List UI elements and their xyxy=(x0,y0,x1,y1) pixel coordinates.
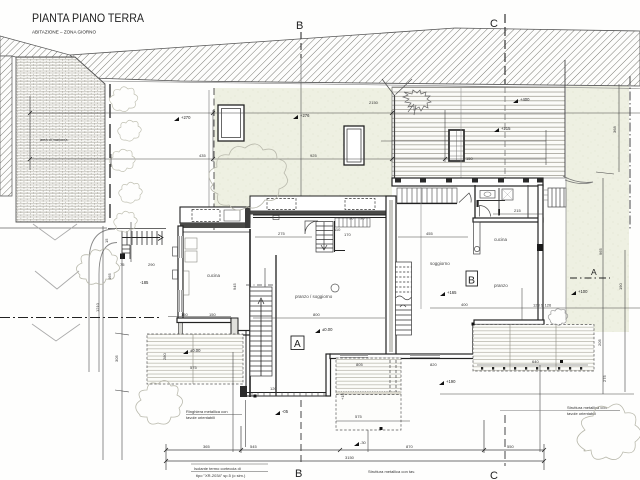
courtyard fence line xyxy=(565,178,567,320)
top wooden deck xyxy=(392,87,565,178)
party wall A/B xyxy=(386,196,396,356)
deck bottom-right xyxy=(473,325,594,372)
garden dim lines xyxy=(30,96,640,170)
svg-text:2150: 2150 xyxy=(369,100,379,105)
UNIT B north wall with posts xyxy=(392,178,543,186)
deck bottom-center upper planked part xyxy=(336,358,401,392)
bottom dim lines xyxy=(166,420,544,470)
paved manoeuvre area (brick) xyxy=(16,57,105,222)
B hall door leaf xyxy=(459,193,471,203)
svg-text:925: 925 xyxy=(310,153,317,158)
deck R dividers and posts xyxy=(509,325,511,371)
road hatch corner top-left xyxy=(0,36,92,78)
A stair S1 xyxy=(250,287,272,376)
hedge curve right garden xyxy=(563,176,593,184)
svg-text:305: 305 xyxy=(114,355,119,362)
svg-text:soggiorno: soggiorno xyxy=(430,261,450,266)
B east wall xyxy=(538,185,543,324)
dimension verticals right xyxy=(596,84,625,394)
svg-text:965: 965 xyxy=(598,248,603,255)
A interior stair S0 xyxy=(316,221,345,252)
svg-text:PIANTA PIANO TERRA: PIANTA PIANO TERRA xyxy=(32,13,144,25)
svg-text:-185: -185 xyxy=(140,280,149,285)
level flags garden xyxy=(181,113,511,131)
svg-text:640: 640 xyxy=(532,359,539,364)
dim line 575 deck C xyxy=(336,420,410,422)
svg-text:±0.00: ±0.00 xyxy=(190,348,201,353)
svg-text:15: 15 xyxy=(104,238,109,243)
deck step dotted band xyxy=(336,392,401,395)
svg-text:575: 575 xyxy=(355,414,362,419)
svg-text:820: 820 xyxy=(430,362,437,367)
svg-text:Struttura metallica con tav.: Struttura metallica con tav. xyxy=(368,469,415,474)
short dim tick line near brick xyxy=(110,154,112,167)
B south-east wall xyxy=(474,320,544,325)
svg-text:150: 150 xyxy=(181,312,188,317)
garden lawn top xyxy=(214,88,392,196)
svg-text:455: 455 xyxy=(426,231,433,236)
svg-text:205: 205 xyxy=(597,339,602,346)
trees and bushes xyxy=(76,144,640,460)
svg-text:C: C xyxy=(490,470,498,480)
svg-text:190: 190 xyxy=(618,283,623,290)
svg-text:3150: 3150 xyxy=(345,455,355,460)
B entrance steps strip xyxy=(397,188,457,204)
external stair E2 left xyxy=(108,229,166,260)
unit label A xyxy=(291,336,304,350)
svg-text:Ringhiera metallica con: Ringhiera metallica con xyxy=(186,409,228,414)
svg-text:1210: 1210 xyxy=(95,302,100,312)
svg-text:575: 575 xyxy=(190,365,197,370)
svg-text:368: 368 xyxy=(612,126,617,133)
svg-text:Isolante termo corteccia di: Isolante termo corteccia di xyxy=(194,466,241,471)
svg-text:945: 945 xyxy=(232,283,237,290)
B interior stair S2 xyxy=(396,262,412,335)
A stair enclosure wall xyxy=(275,255,277,396)
svg-text:365: 365 xyxy=(203,444,210,449)
boundary funnel lines at deck corner xyxy=(382,79,412,96)
svg-text:+165: +165 xyxy=(447,290,457,295)
retaining wall right of brick xyxy=(109,84,111,222)
section line B xyxy=(300,32,302,58)
A east room wall xyxy=(249,229,251,397)
driveway curve inner xyxy=(99,243,117,373)
svg-text:+276: +276 xyxy=(300,113,310,118)
dim ticks garden xyxy=(28,111,447,161)
svg-text:+100: +100 xyxy=(578,289,588,294)
driveway curve outer xyxy=(89,229,115,372)
level flags interior xyxy=(140,97,530,414)
svg-text:90: 90 xyxy=(349,216,354,221)
svg-text:pranzo: pranzo xyxy=(494,283,508,288)
party wall extension dashed xyxy=(389,360,391,392)
right boundary dash-dot xyxy=(629,76,631,230)
svg-text:cucina: cucina xyxy=(207,273,221,278)
chevrons xyxy=(32,224,80,341)
section line C xyxy=(504,14,506,84)
svg-text:B: B xyxy=(295,468,302,480)
B kitchen counter xyxy=(474,222,481,254)
wall pier loggia junction xyxy=(245,207,251,228)
garden lawn right strip xyxy=(566,86,629,332)
window well 2 xyxy=(344,126,364,165)
fence right of deck xyxy=(564,60,566,178)
UNIT A west wall xyxy=(178,226,183,322)
deck bottom-center lower part xyxy=(336,395,401,431)
plant on deck xyxy=(403,90,431,115)
svg-text:275: 275 xyxy=(278,231,285,236)
svg-text:pranzo / soggiorno: pranzo / soggiorno xyxy=(295,294,333,299)
svg-text:545: 545 xyxy=(250,444,257,449)
A kitchen counter line xyxy=(264,268,266,330)
svg-text:B: B xyxy=(468,275,475,287)
svg-text:-05: -05 xyxy=(282,409,289,414)
svg-text:805: 805 xyxy=(356,362,363,367)
UNIT A left loggia xyxy=(180,207,250,223)
svg-text:275: 275 xyxy=(602,375,607,382)
svg-text:B: B xyxy=(296,20,303,32)
svg-text:tavole orientabili: tavole orientabili xyxy=(567,411,596,416)
svg-text:+215: +215 xyxy=(501,126,511,131)
svg-text:cucina: cucina xyxy=(494,237,508,242)
svg-text:550: 550 xyxy=(507,444,514,449)
dash-dot boundary left xyxy=(0,317,160,319)
boundary line below brick xyxy=(0,227,107,229)
svg-text:150: 150 xyxy=(209,312,216,317)
deck corner dots xyxy=(254,323,564,431)
svg-text:+190: +190 xyxy=(446,379,456,384)
svg-text:400: 400 xyxy=(461,302,468,307)
svg-text:ABITAZIONE – ZONA GIORNO: ABITAZIONE – ZONA GIORNO xyxy=(32,30,97,35)
external stair E1 right xyxy=(548,188,566,207)
svg-text:120: 120 xyxy=(270,386,277,391)
svg-text:tipo "XR-2034" sp.5 (o sim.): tipo "XR-2034" sp.5 (o sim.) xyxy=(196,473,246,478)
interior dim lines xyxy=(168,214,640,394)
svg-text:+15: +15 xyxy=(340,392,345,400)
svg-text:A: A xyxy=(294,339,301,350)
svg-text:800: 800 xyxy=(313,312,320,317)
svg-text:150: 150 xyxy=(466,156,473,161)
svg-text:tavole orientabili: tavole orientabili xyxy=(186,415,215,420)
UNIT A top loggia strip xyxy=(250,196,388,212)
svg-text:870: 870 xyxy=(406,444,413,449)
door pivot rect on wall xyxy=(273,216,279,220)
unit A entry steps xyxy=(335,218,370,227)
UNIT A south-west wall stepped xyxy=(177,318,231,323)
window well 1 xyxy=(218,105,244,141)
svg-text:area di manovra: area di manovra xyxy=(40,138,68,142)
svg-text:170: 170 xyxy=(344,232,351,237)
road hatch band top xyxy=(70,28,640,86)
svg-text:280: 280 xyxy=(162,353,167,360)
svg-text:A: A xyxy=(591,267,597,277)
svg-text:-30: -30 xyxy=(360,440,367,445)
window wells on west wall xyxy=(173,247,178,256)
svg-text:C: C xyxy=(490,18,498,30)
B bath wall xyxy=(474,185,476,218)
svg-text:+400: +400 xyxy=(520,97,530,102)
B wall y218 xyxy=(473,218,543,222)
svg-text:215: 215 xyxy=(514,208,521,213)
svg-text:290: 290 xyxy=(148,262,155,267)
A porch east wall xyxy=(326,354,331,396)
B bath fixtures xyxy=(480,191,495,199)
table circle room A xyxy=(331,284,339,292)
stair cut line xyxy=(246,284,276,286)
svg-text:110: 110 xyxy=(334,227,341,232)
deck bottom-left xyxy=(147,334,243,384)
svg-text:Struttura metallica con: Struttura metallica con xyxy=(567,405,607,410)
svg-text:90: 90 xyxy=(360,216,365,221)
pergola lines right of B xyxy=(543,190,548,200)
unit label B xyxy=(466,271,478,286)
dimension verticals left xyxy=(103,226,540,460)
unit A north wall xyxy=(253,214,388,216)
svg-text:±0.00: ±0.00 xyxy=(322,327,333,332)
B bath door arc xyxy=(480,206,491,217)
svg-text:75: 75 xyxy=(120,262,125,267)
B step wall xyxy=(472,324,474,354)
A appliances along west wall xyxy=(184,238,198,295)
courtyard bush xyxy=(548,309,568,326)
door arc A entry xyxy=(305,221,318,234)
svg-text:+270: +270 xyxy=(181,115,191,120)
bushes along path xyxy=(109,87,142,232)
A south porch wall xyxy=(240,386,247,397)
chimney on deck xyxy=(449,130,464,161)
path edge lines right of brick xyxy=(208,90,210,220)
svg-text:128 S 126: 128 S 126 xyxy=(533,303,552,308)
svg-text:435: 435 xyxy=(199,153,206,158)
A/B south wall xyxy=(330,354,480,359)
road hatch left strip xyxy=(0,56,12,196)
